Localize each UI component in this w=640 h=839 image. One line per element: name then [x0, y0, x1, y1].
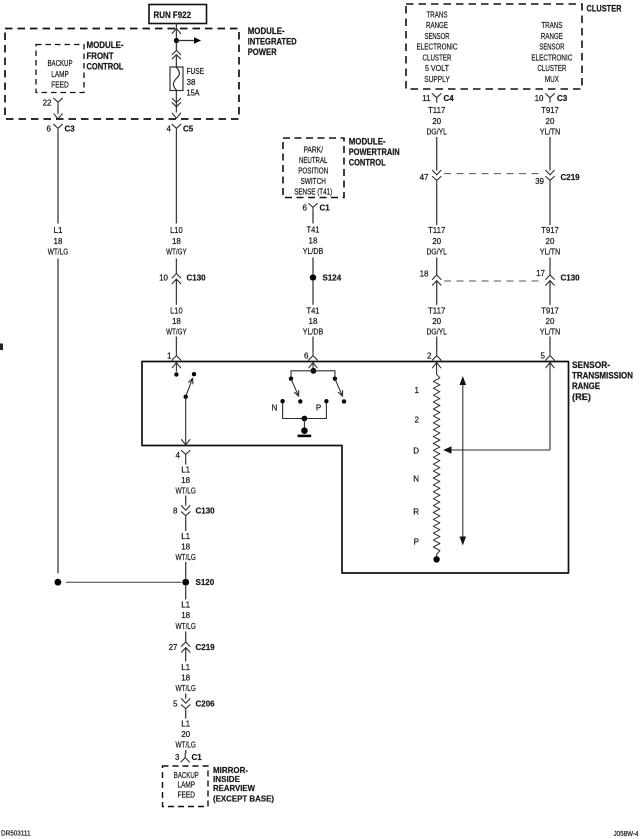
wire mid to C130 right: [549, 258, 551, 276]
module-powertrain control dashed box: [283, 138, 344, 198]
range label 1: [415, 386, 420, 395]
svg-text:CONTROL: CONTROL: [349, 158, 386, 168]
svg-text:SWITCH: SWITCH: [300, 177, 326, 186]
svg-text:18: 18: [54, 237, 63, 246]
svg-text:S124: S124: [323, 273, 342, 282]
range label 2: [415, 416, 420, 425]
label L1 18 WT/LG b4: [175, 465, 196, 495]
svg-text:T117: T117: [428, 306, 446, 315]
wire junction to fuse: [175, 43, 177, 51]
sensor pin 1: [167, 352, 181, 361]
label L1 18 WT/LG b5: [175, 532, 196, 562]
svg-text:18: 18: [309, 317, 318, 326]
svg-text:5 VOLT: 5 VOLT: [425, 63, 449, 73]
inline connector C219 pin 47: [420, 170, 441, 184]
switch bus bar: [291, 371, 335, 377]
footer diagram number DR503111: [1, 829, 31, 838]
inline connector C130 pin 17 symbol: [546, 275, 555, 285]
svg-text:T917: T917: [541, 106, 559, 115]
connector pair dashed line C219: [444, 173, 580, 182]
switch blade pin1-pin4: [186, 378, 193, 396]
text PARK/NEUTRAL POSITION SWITCH SENSE (T41): [294, 145, 332, 196]
svg-text:WT/GY: WT/GY: [166, 248, 187, 257]
svg-text:CLUSTER: CLUSTER: [587, 3, 622, 13]
svg-text:L1: L1: [54, 226, 63, 235]
svg-text:POWERTRAIN: POWERTRAIN: [349, 147, 400, 157]
svg-text:RUN F922: RUN F922: [154, 10, 192, 21]
svg-text:18: 18: [172, 317, 181, 326]
svg-text:WT/LG: WT/LG: [175, 622, 196, 631]
wire C219 to mid label right: [549, 184, 551, 225]
svg-text:WT/LG: WT/LG: [48, 248, 69, 257]
wire pivot to pin 4: [185, 397, 187, 445]
wire C5 to C130 upper: [175, 133, 177, 224]
label CLUSTER: [587, 3, 622, 13]
connector C4 pin 11: [422, 94, 454, 103]
svg-text:TRANS: TRANS: [427, 9, 448, 19]
svg-text:C130: C130: [561, 274, 581, 283]
svg-text:L10: L10: [170, 226, 183, 235]
connector C1 pin 6: [303, 203, 331, 212]
scan artifact left edge: [0, 344, 3, 351]
wire to sensor pin 6: [312, 337, 314, 352]
wire S124 down: [312, 281, 314, 305]
range label P: [414, 538, 419, 547]
text trans range sensor electronic cluster mux: [531, 20, 572, 84]
wire C1 to S124 upper: [312, 212, 314, 224]
sensor pin 5: [541, 352, 555, 361]
label L1 18 WT/LG left wire: [48, 226, 69, 256]
svg-text:P: P: [316, 404, 321, 413]
inline connector C130 pin 10: [159, 274, 206, 284]
svg-text:1: 1: [415, 386, 420, 395]
svg-text:C3: C3: [557, 94, 568, 103]
svg-text:CLUSTER: CLUSTER: [537, 63, 566, 73]
connector chevrons above fuse: [172, 50, 180, 67]
svg-text:6: 6: [303, 204, 308, 213]
label L1 18 WT/LG b7: [175, 663, 196, 693]
switch contact dot pin1: [174, 372, 178, 376]
node fuse top junction: [174, 38, 179, 43]
wire into C130: [175, 259, 177, 274]
arrow to other circuits: [176, 37, 201, 44]
svg-text:LAMP: LAMP: [178, 780, 196, 789]
label MIRROR-INSIDE REARVIEW (EXCEPT BASE): [213, 765, 274, 804]
range label R: [413, 508, 419, 517]
svg-text:L1: L1: [181, 532, 190, 541]
wire C130 to lower label: [436, 285, 438, 305]
svg-text:(EXCEPT BASE): (EXCEPT BASE): [213, 794, 274, 804]
svg-text:BACKUP: BACKUP: [48, 59, 73, 68]
wire C219 to mid label: [436, 184, 438, 225]
footer sheet number J058W-4: [614, 829, 639, 838]
svg-text:P: P: [414, 538, 419, 547]
svg-text:15A: 15A: [187, 88, 201, 97]
svg-text:REARVIEW: REARVIEW: [213, 783, 256, 793]
svg-text:SENSE (T41): SENSE (T41): [294, 188, 332, 197]
splice S124: [310, 273, 342, 282]
label T917 20 YL/TN top: [540, 106, 561, 136]
svg-text:C130: C130: [187, 274, 207, 283]
range label D: [413, 446, 419, 455]
svg-text:18: 18: [181, 674, 190, 683]
svg-text:INTEGRATED: INTEGRATED: [248, 36, 297, 46]
svg-text:C5: C5: [183, 124, 194, 133]
svg-text:RANGE: RANGE: [572, 381, 600, 391]
svg-text:L1: L1: [181, 663, 190, 672]
wire C3 to S120 upper: [57, 133, 59, 224]
inline connector C130 pin 18: [420, 270, 441, 286]
range label N: [413, 475, 419, 484]
label SENSOR-TRANSMISSION RANGE (RE): [572, 360, 633, 402]
wire pin4 c: [185, 519, 187, 531]
blade right: [335, 379, 343, 397]
svg-text:BACKUP: BACKUP: [174, 771, 199, 780]
wire to S124: [312, 258, 314, 275]
svg-text:YL/TN: YL/TN: [540, 127, 561, 136]
svg-text:N: N: [272, 404, 278, 413]
svg-text:47: 47: [420, 173, 429, 182]
resistor ladder: [433, 375, 440, 555]
label T117 20 DG/YL bottom: [426, 306, 447, 336]
svg-text:T41: T41: [307, 226, 321, 235]
label MODULE-INTEGRATED POWER: [248, 26, 297, 57]
connector C1 pin 3: [175, 753, 202, 762]
junction node pin6: [311, 368, 317, 374]
N-P common wire: [283, 403, 327, 418]
wire to internal ground: [303, 419, 305, 429]
text BACKUP LAMP FEED mirror: [174, 771, 199, 800]
svg-text:T41: T41: [307, 306, 321, 315]
wire S120 e: [185, 632, 187, 643]
svg-text:NEUTRAL: NEUTRAL: [299, 156, 328, 165]
svg-text:PARK/: PARK/: [303, 145, 323, 154]
svg-text:CONTROL: CONTROL: [87, 62, 124, 72]
inline connector C130 pin 8: [173, 506, 215, 520]
svg-text:CLUSTER: CLUSTER: [423, 52, 452, 62]
wire S120 down: [185, 586, 187, 600]
svg-text:10: 10: [159, 274, 168, 283]
inline connector C219 pin 27: [169, 642, 216, 652]
svg-text:18: 18: [309, 237, 318, 246]
svg-text:R: R: [413, 508, 419, 517]
svg-text:8: 8: [173, 507, 178, 516]
wire C3 to S120 lower: [57, 259, 59, 574]
svg-text:TRANS: TRANS: [541, 20, 562, 30]
label T41 18 YL/DB lower: [303, 306, 324, 336]
backup lamp feed inner dashed box: [36, 45, 84, 93]
svg-text:5: 5: [173, 700, 178, 709]
svg-text:1: 1: [167, 352, 172, 361]
inline connector C206 pin 5: [173, 699, 215, 713]
label T917 20 YL/TN mid: [540, 226, 561, 256]
svg-text:SENSOR: SENSOR: [425, 31, 450, 41]
svg-text:FRONT: FRONT: [87, 51, 114, 61]
wire f: [185, 652, 187, 662]
contact dot left: [289, 377, 293, 381]
svg-text:6: 6: [47, 124, 52, 133]
svg-text:(RE): (RE): [572, 392, 591, 402]
svg-text:MODULE-: MODULE-: [248, 26, 285, 36]
svg-text:22: 22: [43, 98, 52, 107]
svg-text:4: 4: [167, 124, 172, 133]
label MODULE-POWERTRAIN CONTROL: [349, 137, 400, 168]
wire h: [185, 712, 187, 718]
contact dot right: [333, 377, 337, 381]
label L1 20 WT/LG b8: [175, 719, 196, 749]
svg-text:C4: C4: [444, 94, 455, 103]
pin2 entry arrow: [432, 363, 440, 375]
wire pin4 a: [185, 459, 187, 464]
svg-text:SENSOR: SENSOR: [539, 42, 564, 52]
svg-text:D: D: [413, 446, 419, 455]
label L10 18 WT/GY lower: [166, 306, 187, 336]
wire C4 down: [436, 137, 438, 171]
svg-text:C219: C219: [561, 173, 581, 182]
blade right tip dot: [342, 399, 346, 403]
common junction dot: [302, 416, 308, 422]
wire to sensor pin 5: [549, 337, 551, 352]
wire mid to C130: [436, 258, 438, 276]
blade left: [291, 379, 299, 397]
svg-text:SUPPLY: SUPPLY: [424, 74, 450, 84]
wiper wire: [446, 449, 550, 451]
svg-text:WT/LG: WT/LG: [175, 553, 196, 562]
label T917 20 YL/TN bottom: [540, 306, 561, 336]
svg-text:18: 18: [181, 611, 190, 620]
svg-text:FUSE: FUSE: [187, 67, 205, 76]
svg-text:L1: L1: [181, 600, 190, 609]
svg-text:WT/LG: WT/LG: [175, 684, 196, 693]
svg-text:20: 20: [546, 117, 555, 126]
sensor pin 2: [427, 352, 441, 361]
svg-text:4: 4: [176, 451, 181, 460]
terminal N: [272, 399, 285, 413]
text trans range sensor electronic cluster 5 volt supply: [417, 9, 458, 84]
cluster dashed box: [406, 4, 582, 89]
svg-text:FEED: FEED: [51, 81, 69, 90]
svg-text:T917: T917: [541, 226, 559, 235]
wire fuse to C5 pin: [175, 91, 177, 113]
svg-text:T117: T117: [428, 226, 446, 235]
svg-text:2: 2: [415, 416, 420, 425]
junction dot left: [55, 579, 62, 586]
svg-text:ELECTRONIC: ELECTRONIC: [417, 42, 458, 52]
svg-text:20: 20: [546, 237, 555, 246]
pin 39 label: [535, 177, 544, 186]
svg-text:11: 11: [422, 94, 431, 103]
svg-text:39: 39: [535, 177, 544, 186]
svg-text:18: 18: [181, 476, 190, 485]
svg-text:FEED: FEED: [178, 790, 196, 799]
svg-text:L1: L1: [181, 465, 190, 474]
svg-text:MUX: MUX: [545, 74, 559, 84]
svg-text:T917: T917: [541, 306, 559, 315]
resistor bottom terminal: [433, 555, 439, 563]
svg-text:L10: L10: [170, 306, 183, 315]
svg-text:17: 17: [536, 269, 545, 278]
label T41 18 YL/DB upper: [303, 226, 324, 257]
svg-text:SENSOR-: SENSOR-: [572, 360, 610, 370]
switch pivot dot: [184, 395, 188, 399]
switch fixed contact dot: [192, 372, 196, 376]
svg-text:MODULE-: MODULE-: [349, 137, 386, 147]
connector pin 4: [176, 450, 191, 459]
svg-text:C130: C130: [196, 507, 216, 516]
svg-text:18: 18: [181, 542, 190, 551]
arrow into module-integrated power box: [172, 28, 180, 33]
arrow exit bottom of MIP box: [172, 113, 180, 118]
wire RUN F922 to fuse node: [175, 24, 177, 39]
svg-text:YL/DB: YL/DB: [303, 247, 324, 256]
svg-text:C219: C219: [196, 643, 216, 652]
svg-text:POWER: POWER: [248, 47, 277, 57]
svg-text:RANGE: RANGE: [426, 20, 448, 30]
svg-text:DR503111: DR503111: [1, 829, 31, 838]
connector C3 pin 10: [535, 94, 568, 103]
wire g: [185, 694, 187, 699]
module-integrated power dashed box: [5, 29, 239, 120]
wiper arrowhead: [443, 446, 451, 453]
svg-text:POSITION: POSITION: [298, 167, 328, 176]
splice S120: [182, 578, 214, 587]
svg-text:DG/YL: DG/YL: [426, 248, 447, 257]
svg-text:J058W-4: J058W-4: [614, 829, 639, 838]
svg-text:20: 20: [546, 317, 555, 326]
connector C3 pin 6: [47, 124, 76, 133]
wire pin4 d: [185, 562, 187, 578]
svg-text:WT/LG: WT/LG: [175, 486, 196, 495]
svg-text:LAMP: LAMP: [51, 70, 69, 79]
terminal P: [316, 399, 329, 413]
ground: [298, 427, 312, 435]
svg-text:18: 18: [172, 237, 181, 246]
sensor pin 6: [304, 352, 317, 361]
svg-text:5: 5: [541, 352, 546, 361]
svg-text:38: 38: [187, 78, 196, 87]
connector 22 of front control module: [43, 98, 63, 107]
svg-text:TRANSMISSION: TRANSMISSION: [572, 371, 633, 381]
svg-text:T117: T117: [428, 106, 446, 115]
svg-text:ELECTRONIC: ELECTRONIC: [531, 52, 572, 62]
label T117 20 DG/YL mid: [426, 226, 447, 256]
connector pair dashed line C130: [444, 274, 580, 283]
svg-text:YL/DB: YL/DB: [303, 327, 324, 336]
wire splice bus: [66, 581, 182, 583]
pin1 entry arrow: [172, 363, 180, 372]
svg-text:DG/YL: DG/YL: [426, 327, 447, 336]
svg-text:DG/YL: DG/YL: [426, 127, 447, 136]
svg-text:YL/TN: YL/TN: [540, 248, 561, 257]
svg-text:YL/TN: YL/TN: [540, 327, 561, 336]
svg-text:20: 20: [432, 117, 441, 126]
wire 22 to box edge: [57, 107, 59, 114]
wire to sensor pin 1: [175, 337, 177, 352]
svg-text:20: 20: [181, 730, 190, 739]
pin 17 label: [536, 269, 545, 278]
svg-text:S120: S120: [196, 578, 215, 587]
sensor-transmission range box outline: [142, 362, 569, 574]
connector chevrons below fuse: [172, 98, 180, 106]
wire C130 to lower label right: [549, 285, 551, 305]
wire to sensor pin 2: [436, 337, 438, 352]
arrow exit pin 4: [182, 440, 190, 445]
text BACKUP LAMP FEED: [48, 59, 73, 90]
fuse 38 15A: [170, 67, 204, 97]
mirror backup lamp feed dashed box: [163, 766, 209, 807]
svg-text:C1: C1: [192, 753, 203, 762]
svg-text:3: 3: [175, 753, 180, 762]
arrow exit bottom of FCM box: [54, 114, 62, 119]
svg-text:20: 20: [432, 237, 441, 246]
svg-text:MODULE-: MODULE-: [87, 40, 124, 50]
connector C5 pin 4: [167, 124, 194, 133]
svg-text:18: 18: [420, 270, 429, 279]
svg-text:20: 20: [432, 317, 441, 326]
relay output RUN F922 label box: [149, 5, 207, 24]
label L10 18 WT/GY upper: [166, 226, 187, 256]
pin5 entry arrow: [546, 363, 554, 450]
svg-text:27: 27: [169, 643, 178, 652]
wire pin4 b: [185, 496, 187, 506]
svg-text:N: N: [413, 475, 419, 484]
svg-text:L1: L1: [181, 719, 190, 728]
svg-text:C3: C3: [65, 124, 76, 133]
wire C130 to label: [175, 283, 177, 305]
selector travel arrow: [460, 376, 467, 546]
svg-text:RANGE: RANGE: [541, 31, 563, 41]
svg-text:6: 6: [304, 352, 309, 361]
wire i: [185, 750, 187, 754]
label T117 20 DG/YL top: [426, 106, 447, 136]
wire C3 down: [549, 137, 551, 171]
svg-text:2: 2: [427, 352, 432, 361]
svg-text:C1: C1: [320, 204, 331, 213]
pin6 entry arrow: [309, 363, 317, 370]
inline connector C219 pin 39 symbol: [546, 170, 555, 184]
svg-text:WT/LG: WT/LG: [175, 741, 196, 750]
svg-text:C206: C206: [196, 700, 216, 709]
blade left tip dot: [298, 399, 302, 403]
svg-text:10: 10: [535, 94, 544, 103]
label L1 18 WT/LG b6: [175, 600, 196, 631]
label MODULE-FRONT CONTROL: [87, 40, 124, 71]
svg-text:WT/GY: WT/GY: [166, 327, 187, 336]
